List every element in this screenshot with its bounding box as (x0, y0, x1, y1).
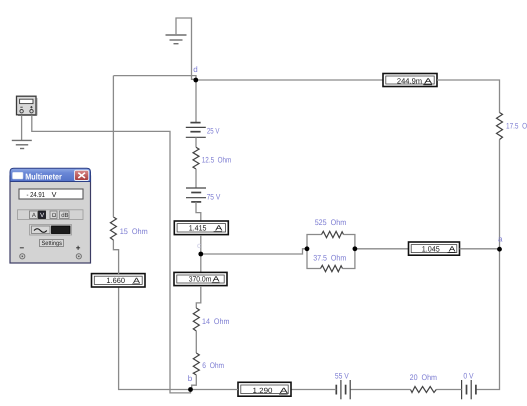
resistor 15 Ohm (110, 217, 116, 240)
battery 75 V (186, 188, 206, 202)
svg-text:0 V: 0 V (463, 372, 474, 381)
wire ammeter to node b (191, 389, 239, 391)
svg-text:12.5 Ohm: 12.5 Ohm (202, 155, 232, 164)
mode buttons frame (18, 210, 84, 220)
waveform frame (30, 225, 72, 236)
wire ammeter up with jog to 15 Ohm resistor (113, 240, 118, 274)
svg-text:37.5 Ohm: 37.5 Ohm (313, 254, 346, 263)
svg-text:1.290: 1.290 (253, 386, 273, 395)
svg-text:Settings: Settings (42, 240, 63, 247)
wire node d to ammeter U4 (196, 79, 383, 81)
wire 14 Ohm to 6 Ohm (195, 331, 197, 353)
svg-text:Ω: Ω (52, 212, 57, 219)
close button (75, 170, 89, 180)
svg-text:−: − (20, 244, 25, 253)
svg-text:+: + (76, 244, 81, 253)
wire ammeter 1.415 to node c (200, 235, 202, 272)
ammeter 1.415 A (174, 221, 228, 235)
wire 55V battery to ammeter (291, 389, 336, 391)
wire ammeter to right rail (437, 80, 500, 113)
ammeter 1.660 A (92, 274, 146, 287)
svg-text:V: V (52, 190, 57, 199)
svg-text:55 V: 55 V (335, 372, 349, 381)
svg-text:525 Ohm: 525 Ohm (315, 218, 347, 227)
title bar icon (13, 172, 24, 179)
node b (188, 387, 193, 392)
wire ground stub to node d (176, 18, 196, 79)
svg-text:17.5 Ohm: 17.5 Ohm (506, 121, 527, 130)
wire 25V battery to 12.5 Ohm (195, 137, 197, 147)
button ohm (50, 211, 57, 219)
svg-text:370.0m: 370.0m (189, 275, 212, 284)
junction (parallel right) (353, 246, 358, 251)
wire ammeter 1.045 to node a (460, 248, 500, 250)
svg-text:15 Ohm: 15 Ohm (120, 227, 148, 236)
button V (selected) (39, 211, 46, 219)
svg-text:V: V (40, 212, 44, 219)
node a (497, 247, 502, 252)
multimeter icon XMM1 (17, 96, 37, 115)
svg-text:14 Ohm: 14 Ohm (202, 317, 230, 326)
svg-text:1.415: 1.415 (189, 224, 207, 233)
resistor 17.5 Ohm (497, 113, 503, 140)
display readout (19, 189, 83, 199)
wire left branch top horizontal to node d (114, 76, 197, 80)
ammeter 244.9m A (383, 74, 437, 87)
wire parallel pair to ammeter 1.045 (355, 248, 409, 250)
wire resistor to node a (499, 140, 501, 250)
wire 20 Ohm to 55V battery (350, 389, 410, 391)
wire multimeter plus terminal to middle rail (32, 116, 191, 393)
button dB (60, 211, 70, 219)
battery 55 V (336, 380, 350, 399)
svg-text:75 V: 75 V (207, 192, 221, 201)
svg-text:c: c (197, 241, 201, 250)
battery 0 V (462, 380, 476, 399)
svg-text:25 V: 25 V (207, 127, 220, 136)
svg-text:a: a (498, 234, 503, 243)
resistor 6 Ohm (193, 353, 199, 375)
svg-text:244.9m: 244.9m (397, 77, 422, 86)
junction (parallel left) (305, 246, 310, 251)
sine button (32, 226, 51, 234)
resistor 12.5 Ohm (193, 147, 199, 169)
ground (below multimeter icon) (12, 140, 32, 148)
wire 0V battery to 20 Ohm (436, 389, 461, 391)
svg-text:dB: dB (61, 212, 68, 219)
wire node a down right rail to bottom (476, 249, 500, 389)
wire node b to bottom-left corner and up left rail (119, 288, 191, 390)
resistor 20 Ohm (411, 387, 437, 393)
ammeter 370.0m A (174, 272, 227, 285)
svg-text:b: b (188, 374, 193, 383)
dialog body (10, 176, 91, 263)
battery 25 V (186, 123, 206, 138)
minus terminal (20, 244, 25, 259)
ammeter 1.045 A (409, 242, 460, 255)
svg-text:1.660: 1.660 (106, 276, 125, 285)
wire node c to parallel resistors (201, 249, 307, 254)
plus terminal (76, 244, 82, 259)
ground (top, near node d) (166, 35, 187, 44)
svg-text:- 24.91: - 24.91 (27, 190, 46, 199)
svg-text:1.045: 1.045 (422, 244, 440, 253)
resistor 37.5 Ohm (bottom of parallel pair) (307, 249, 355, 272)
node d (193, 78, 198, 83)
button A (30, 211, 38, 219)
svg-text:A: A (32, 212, 36, 219)
ammeter 1.290 A (238, 382, 291, 396)
settings button (40, 240, 64, 248)
resistor 14 Ohm (193, 308, 199, 331)
Multimeter dialog window (10, 168, 91, 263)
wire 15 Ohm up to top horizontal (112, 76, 114, 217)
wire multimeter minus terminal to ground (21, 116, 23, 141)
wire node d down to 25V battery (195, 80, 197, 122)
node c (198, 252, 203, 257)
wire ammeter 370.0m jog to 14 Ohm (196, 286, 201, 308)
wire 75V battery jog to ammeter 1.415 (196, 202, 201, 222)
svg-text:6 Ohm: 6 Ohm (202, 361, 224, 370)
resistor 525 Ohm (top of parallel pair) (307, 231, 355, 249)
dc button (dark) (52, 226, 71, 234)
wire 12.5 Ohm to 75V battery (195, 169, 197, 188)
svg-text:d: d (193, 65, 197, 74)
svg-text:Multimeter: Multimeter (25, 171, 62, 181)
svg-text:20 Ohm: 20 Ohm (410, 373, 438, 382)
wire 6 Ohm jog to node b (192, 375, 197, 390)
